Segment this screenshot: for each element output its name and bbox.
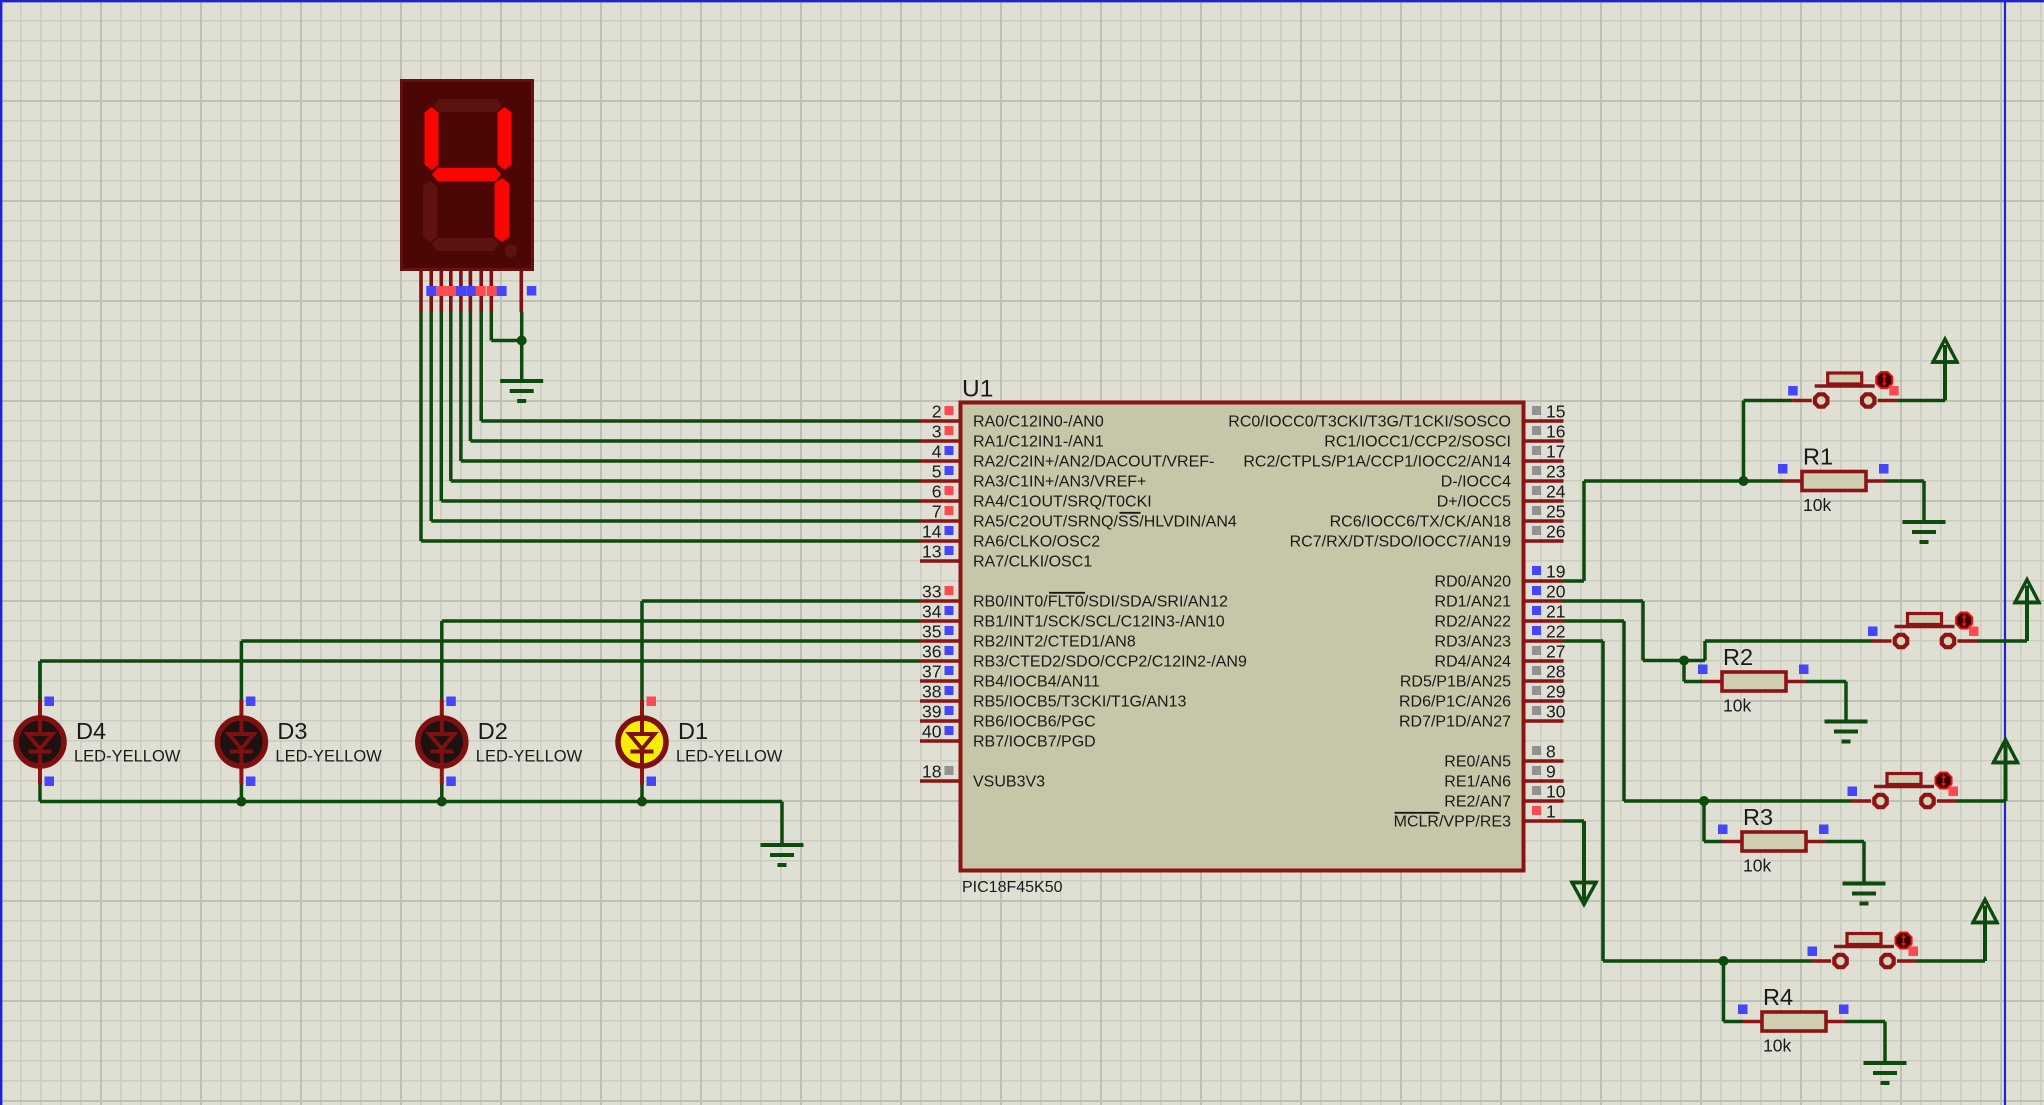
svg-text:LED-YELLOW: LED-YELLOW — [476, 748, 583, 766]
svg-text:24: 24 — [1546, 482, 1566, 502]
svg-text:9: 9 — [1546, 762, 1556, 782]
svg-text:10k: 10k — [1803, 495, 1831, 515]
svg-text:34: 34 — [922, 602, 942, 622]
svg-text:RD3/AN23: RD3/AN23 — [1435, 634, 1512, 651]
svg-text:RB4/IOCB4/AN11: RB4/IOCB4/AN11 — [973, 674, 1100, 691]
svg-text:RB7/IOCB7/PGD: RB7/IOCB7/PGD — [973, 734, 1096, 751]
svg-text:RC2/CTPLS/P1A/CCP1/IOCC2/AN14: RC2/CTPLS/P1A/CCP1/IOCC2/AN14 — [1243, 454, 1511, 471]
svg-text:33: 33 — [922, 582, 941, 602]
svg-text:RA4/C1OUT/SRQ/T0CKI: RA4/C1OUT/SRQ/T0CKI — [973, 494, 1152, 511]
svg-text:15: 15 — [1546, 402, 1565, 422]
svg-text:RA1/C12IN1-/AN1: RA1/C12IN1-/AN1 — [973, 434, 1104, 451]
svg-text:RC6/IOCC6/TX/CK/AN18: RC6/IOCC6/TX/CK/AN18 — [1330, 514, 1511, 531]
svg-text:18: 18 — [922, 762, 941, 782]
svg-text:19: 19 — [1546, 562, 1565, 582]
svg-text:U1: U1 — [962, 376, 993, 403]
svg-text:LED-YELLOW: LED-YELLOW — [74, 748, 181, 766]
svg-text:23: 23 — [1546, 462, 1565, 482]
svg-text:RD0/AN20: RD0/AN20 — [1435, 574, 1512, 591]
svg-text:D2: D2 — [478, 718, 508, 744]
svg-text:RD5/P1B/AN25: RD5/P1B/AN25 — [1400, 674, 1511, 691]
svg-text:6: 6 — [932, 482, 942, 502]
svg-text:27: 27 — [1546, 642, 1565, 662]
svg-text:13: 13 — [922, 542, 941, 562]
svg-text:D+/IOCC5: D+/IOCC5 — [1437, 494, 1511, 511]
svg-text:RB6/IOCB6/PGC: RB6/IOCB6/PGC — [973, 714, 1096, 731]
svg-text:D-/IOCC4: D-/IOCC4 — [1441, 474, 1511, 491]
svg-text:RC0/IOCC0/T3CKI/T3G/T1CKI/SOSC: RC0/IOCC0/T3CKI/T3G/T1CKI/SOSCO — [1228, 414, 1511, 431]
svg-text:RC7/RX/DT/SDO/IOCC7/AN19: RC7/RX/DT/SDO/IOCC7/AN19 — [1290, 534, 1511, 551]
svg-text:RB3/CTED2/SDO/CCP2/C12IN2-/AN9: RB3/CTED2/SDO/CCP2/C12IN2-/AN9 — [973, 654, 1247, 671]
svg-text:26: 26 — [1546, 522, 1565, 542]
svg-text:10k: 10k — [1723, 696, 1751, 716]
svg-text:29: 29 — [1546, 682, 1565, 702]
svg-text:RA6/CLKO/OSC2: RA6/CLKO/OSC2 — [973, 534, 1100, 551]
svg-text:D4: D4 — [76, 718, 106, 744]
svg-text:RD4/AN24: RD4/AN24 — [1435, 654, 1512, 671]
svg-text:RA2/C2IN+/AN2/DACOUT/VREF-: RA2/C2IN+/AN2/DACOUT/VREF- — [973, 454, 1214, 471]
svg-text:RE2/AN7: RE2/AN7 — [1444, 794, 1511, 811]
svg-text:RE1/AN6: RE1/AN6 — [1444, 774, 1511, 791]
svg-text:1: 1 — [1546, 802, 1556, 822]
svg-text:RD6/P1C/AN26: RD6/P1C/AN26 — [1399, 694, 1511, 711]
svg-text:RE0/AN5: RE0/AN5 — [1444, 754, 1511, 771]
svg-text:LED-YELLOW: LED-YELLOW — [275, 748, 382, 766]
svg-text:R2: R2 — [1723, 644, 1753, 670]
svg-text:D3: D3 — [277, 718, 307, 744]
svg-text:17: 17 — [1546, 442, 1565, 462]
svg-text:MCLR/VPP/RE3: MCLR/VPP/RE3 — [1394, 814, 1511, 831]
svg-text:22: 22 — [1546, 622, 1565, 642]
svg-text:35: 35 — [922, 622, 941, 642]
svg-text:21: 21 — [1546, 602, 1565, 622]
svg-text:30: 30 — [1546, 702, 1566, 722]
svg-text:RB2/INT2/CTED1/AN8: RB2/INT2/CTED1/AN8 — [973, 634, 1136, 651]
svg-text:RA0/C12IN0-/AN0: RA0/C12IN0-/AN0 — [973, 414, 1104, 431]
svg-text:RB1/INT1/SCK/SCL/C12IN3-/AN10: RB1/INT1/SCK/SCL/C12IN3-/AN10 — [973, 614, 1225, 631]
svg-text:RD2/AN22: RD2/AN22 — [1435, 614, 1512, 631]
svg-text:14: 14 — [922, 522, 942, 542]
svg-text:RB5/IOCB5/T3CKI/T1G/AN13: RB5/IOCB5/T3CKI/T1G/AN13 — [973, 694, 1187, 711]
svg-text:RC1/IOCC1/CCP2/SOSCI: RC1/IOCC1/CCP2/SOSCI — [1324, 434, 1511, 451]
svg-text:36: 36 — [922, 642, 941, 662]
svg-text:3: 3 — [932, 422, 942, 442]
svg-text:2: 2 — [932, 402, 942, 422]
svg-text:R4: R4 — [1763, 984, 1793, 1010]
svg-text:39: 39 — [922, 702, 941, 722]
svg-text:R3: R3 — [1743, 804, 1773, 830]
svg-text:RA3/C1IN+/AN3/VREF+: RA3/C1IN+/AN3/VREF+ — [973, 474, 1146, 491]
svg-text:R1: R1 — [1803, 444, 1833, 470]
svg-text:RB0/INT0/FLT0/SDI/SDA/SRI/AN12: RB0/INT0/FLT0/SDI/SDA/SRI/AN12 — [973, 594, 1228, 611]
svg-text:RA5/C2OUT/SRNQ/SS/HLVDIN/AN4: RA5/C2OUT/SRNQ/SS/HLVDIN/AN4 — [973, 514, 1237, 531]
svg-text:10k: 10k — [1763, 1036, 1791, 1056]
svg-text:8: 8 — [1546, 742, 1556, 762]
svg-text:10k: 10k — [1743, 856, 1771, 876]
svg-text:PIC18F45K50: PIC18F45K50 — [962, 879, 1063, 896]
svg-text:VSUB3V3: VSUB3V3 — [973, 774, 1045, 791]
svg-text:10: 10 — [1546, 782, 1566, 802]
svg-text:38: 38 — [922, 682, 941, 702]
svg-text:7: 7 — [932, 502, 942, 522]
svg-text:20: 20 — [1546, 582, 1566, 602]
svg-text:4: 4 — [932, 442, 942, 462]
svg-text:RD7/P1D/AN27: RD7/P1D/AN27 — [1399, 714, 1511, 731]
svg-text:40: 40 — [922, 722, 942, 742]
svg-text:28: 28 — [1546, 662, 1565, 682]
svg-text:16: 16 — [1546, 422, 1565, 442]
svg-text:LED-YELLOW: LED-YELLOW — [676, 748, 783, 766]
svg-text:RA7/CLKI/OSC1: RA7/CLKI/OSC1 — [973, 554, 1092, 571]
svg-text:D1: D1 — [678, 718, 708, 744]
svg-text:5: 5 — [932, 462, 942, 482]
svg-text:37: 37 — [922, 662, 941, 682]
svg-text:RD1/AN21: RD1/AN21 — [1435, 594, 1512, 611]
svg-text:25: 25 — [1546, 502, 1565, 522]
